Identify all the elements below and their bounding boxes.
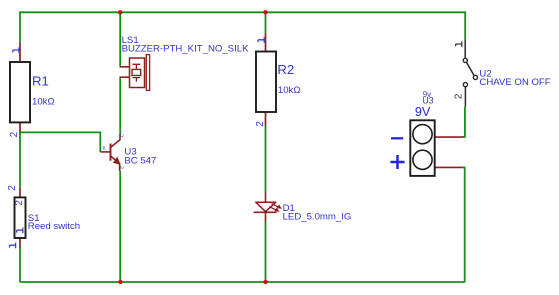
buzzer LS1 <box>120 55 150 91</box>
wire transistor emitter to bottom net <box>119 171 121 283</box>
wire R2 bottom to LED D1 <box>265 125 267 193</box>
junction bottom LED <box>263 280 267 284</box>
svg-text:2: 2 <box>14 200 25 206</box>
transistor U3 (BC 547) <box>100 134 120 171</box>
pin number 1 of R1 <box>13 47 19 53</box>
battery plus mark <box>390 155 404 169</box>
pin number 1 of R2 <box>258 37 264 43</box>
svg-text:B: B <box>102 145 105 150</box>
svg-text:R2: R2 <box>277 62 294 77</box>
junction top buzzer branch <box>118 10 122 14</box>
battery minus mark <box>391 137 403 139</box>
LED D1 <box>254 193 282 222</box>
reed switch S1 <box>15 188 26 248</box>
junction bottom emitter <box>118 280 122 284</box>
pin number 1 of S1 (outside) <box>9 243 15 249</box>
wire right vertical top to switch pin 1 <box>464 11 466 40</box>
resistor R1 <box>10 43 30 132</box>
battery U3 9V <box>410 120 462 176</box>
wire buzzer branch from top <box>119 12 121 66</box>
pin number 1 of U2 <box>456 41 462 47</box>
svg-text:LED_5.0mm_IG: LED_5.0mm_IG <box>283 211 352 222</box>
wire R2 branch from top <box>265 12 267 33</box>
wire LED D1 to bottom net <box>265 222 267 283</box>
wire bottom net <box>20 281 465 283</box>
svg-text:10kΩ: 10kΩ <box>278 85 301 96</box>
junction top R2 branch <box>263 10 267 14</box>
svg-text:2: 2 <box>453 93 464 99</box>
svg-text:2: 2 <box>7 185 18 191</box>
wire battery plus to bottom net <box>462 167 465 282</box>
wire left vertical (top to R1 pin 1) <box>19 11 21 42</box>
resistor R2 <box>256 34 276 126</box>
wire R1 bottom to transistor base <box>20 132 100 152</box>
wire R1 bottom down to S1 <box>19 132 21 187</box>
wire S1 bottom to bottom net <box>19 247 21 282</box>
svg-text:Reed switch: Reed switch <box>28 221 80 232</box>
svg-text:BUZZER-PTH_KIT_NO_SILK: BUZZER-PTH_KIT_NO_SILK <box>122 43 249 54</box>
svg-text:R1: R1 <box>32 73 49 88</box>
wire top net <box>20 11 465 13</box>
switch U2 (CHAVE ON OFF) <box>463 41 477 107</box>
svg-text:10kΩ: 10kΩ <box>32 97 55 108</box>
wire switch pin 2 to battery minus <box>462 107 465 137</box>
svg-text:BC 547: BC 547 <box>124 156 156 167</box>
svg-text:9V: 9V <box>415 105 431 119</box>
pin name 1 inside S1 <box>17 228 23 234</box>
svg-text:CHAVE ON OFF: CHAVE ON OFF <box>479 77 550 88</box>
svg-text:2: 2 <box>9 131 20 137</box>
svg-text:2: 2 <box>255 121 266 127</box>
wire buzzer pin2 to transistor collector <box>119 78 121 135</box>
